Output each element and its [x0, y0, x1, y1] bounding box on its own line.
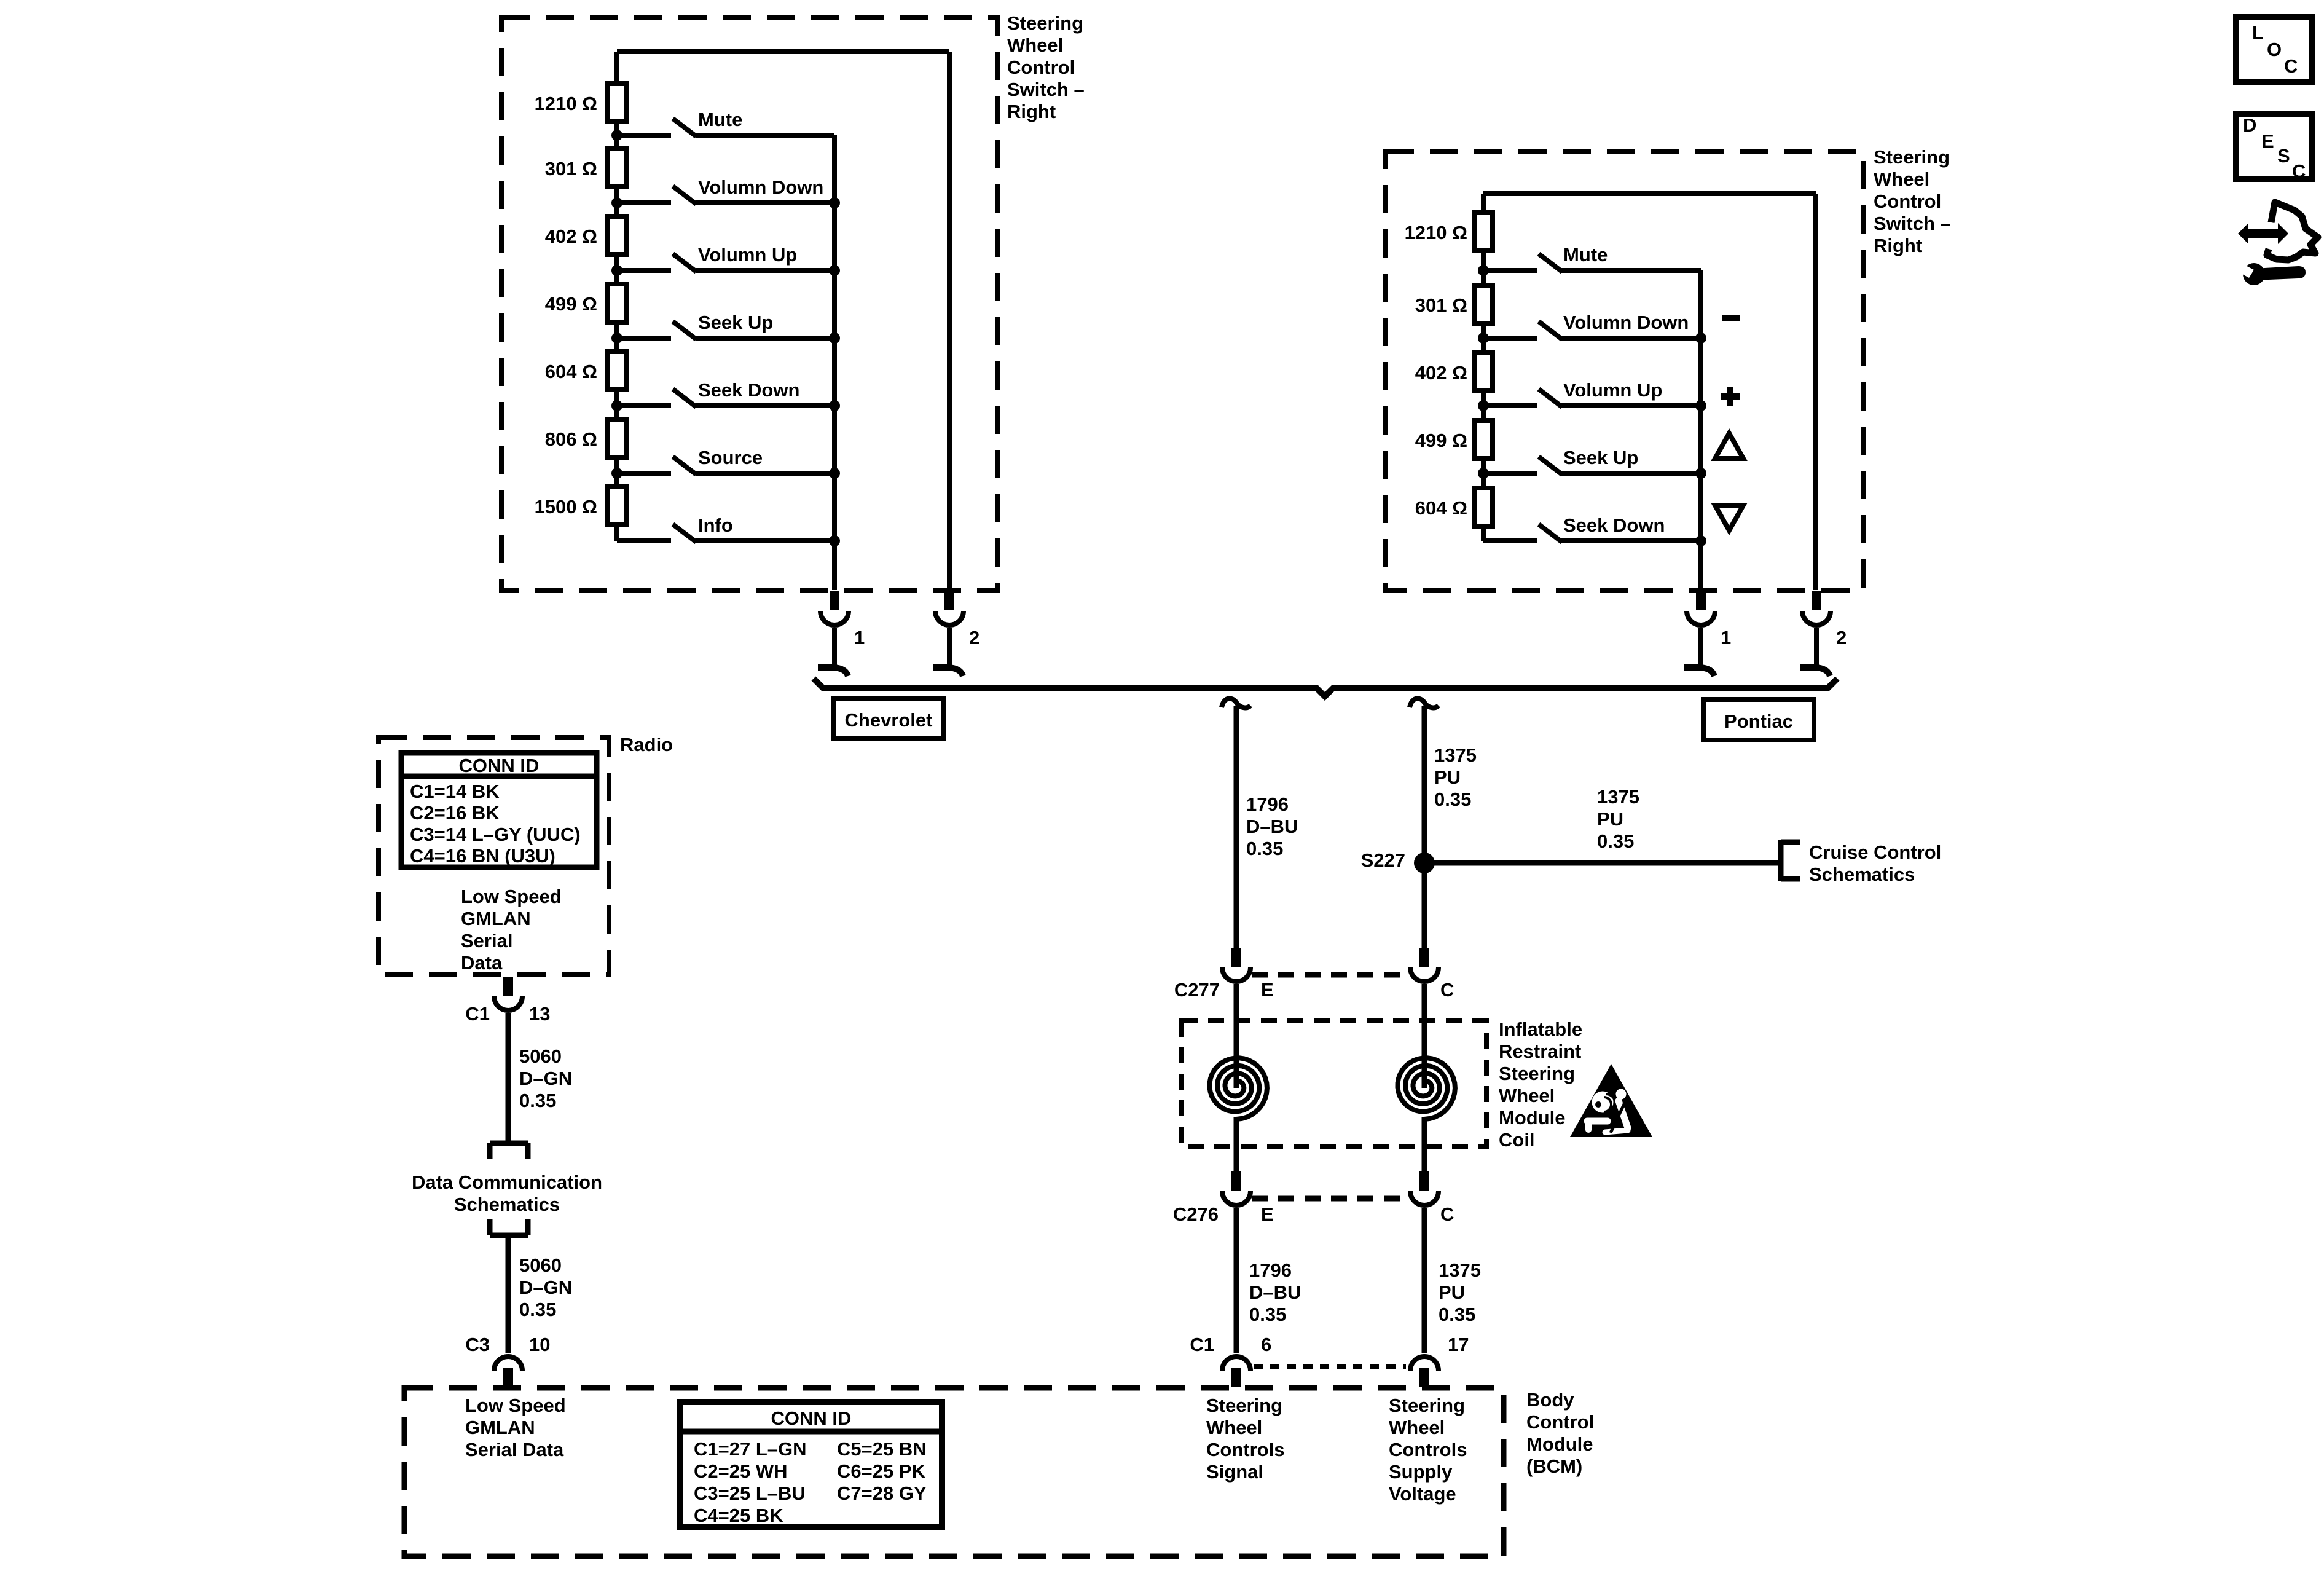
- svg-text:Seek Up: Seek Up: [698, 312, 773, 333]
- svg-text:O: O: [2267, 39, 2282, 60]
- svg-text:GMLAN: GMLAN: [465, 1417, 535, 1438]
- svg-text:6: 6: [1261, 1334, 1271, 1355]
- svg-text:10: 10: [529, 1334, 550, 1355]
- svg-text:402 Ω: 402 Ω: [545, 226, 597, 247]
- svg-text:C276: C276: [1173, 1203, 1219, 1225]
- svg-text:0.35: 0.35: [519, 1090, 556, 1111]
- svg-text:CONN ID: CONN ID: [771, 1408, 852, 1429]
- svg-text:C4=16 BN (U3U): C4=16 BN (U3U): [410, 845, 555, 867]
- svg-text:Voltage: Voltage: [1389, 1483, 1456, 1505]
- svg-text:Schematics: Schematics: [454, 1194, 560, 1215]
- svg-text:Seek Down: Seek Down: [1563, 514, 1665, 536]
- svg-text:Inflatable: Inflatable: [1499, 1018, 1582, 1040]
- svg-text:Radio: Radio: [620, 734, 673, 755]
- svg-text:Volumn Down: Volumn Down: [1563, 312, 1689, 333]
- svg-text:CONN ID: CONN ID: [459, 755, 540, 776]
- svg-text:C: C: [2284, 55, 2298, 77]
- svg-text:E: E: [2261, 130, 2274, 152]
- svg-text:(BCM): (BCM): [1526, 1455, 1582, 1477]
- svg-text:Control: Control: [1526, 1411, 1594, 1433]
- svg-text:Volumn Up: Volumn Up: [698, 244, 797, 266]
- svg-text:Switch –: Switch –: [1874, 213, 1951, 234]
- svg-text:Volumn Up: Volumn Up: [1563, 379, 1662, 401]
- svg-text:Control: Control: [1874, 191, 1941, 212]
- svg-text:Module: Module: [1499, 1107, 1566, 1128]
- svg-text:Info: Info: [698, 514, 733, 536]
- svg-text:1210 Ω: 1210 Ω: [535, 93, 597, 114]
- svg-text:2: 2: [969, 627, 979, 648]
- svg-text:Controls: Controls: [1206, 1439, 1284, 1460]
- svg-text:Supply: Supply: [1389, 1461, 1453, 1483]
- svg-text:301 Ω: 301 Ω: [1415, 294, 1467, 316]
- svg-text:Serial: Serial: [461, 930, 512, 951]
- svg-text:1: 1: [854, 627, 865, 648]
- svg-text:C277: C277: [1174, 979, 1220, 1001]
- svg-text:Steering: Steering: [1389, 1395, 1465, 1416]
- svg-text:Restraint: Restraint: [1499, 1041, 1581, 1062]
- svg-text:0.35: 0.35: [1439, 1304, 1475, 1325]
- svg-text:Serial Data: Serial Data: [465, 1439, 564, 1460]
- svg-text:Control: Control: [1007, 57, 1075, 78]
- svg-text:Steering: Steering: [1206, 1395, 1282, 1416]
- svg-text:Controls: Controls: [1389, 1439, 1467, 1460]
- svg-text:1375: 1375: [1597, 786, 1639, 808]
- svg-text:Data: Data: [461, 952, 503, 974]
- svg-text:1: 1: [1721, 627, 1731, 648]
- svg-text:1796: 1796: [1249, 1259, 1292, 1281]
- svg-text:402 Ω: 402 Ω: [1415, 362, 1467, 384]
- svg-text:Pontiac: Pontiac: [1724, 711, 1793, 732]
- svg-text:S227: S227: [1361, 849, 1405, 871]
- svg-text:C: C: [1440, 979, 1454, 1001]
- svg-text:GMLAN: GMLAN: [461, 908, 531, 929]
- svg-text:17: 17: [1448, 1334, 1469, 1355]
- svg-text:C4=25 BK: C4=25 BK: [694, 1505, 783, 1526]
- svg-text:301 Ω: 301 Ω: [545, 158, 597, 179]
- svg-text:C3=14 L–GY (UUC): C3=14 L–GY (UUC): [410, 824, 581, 845]
- svg-text:0.35: 0.35: [1246, 838, 1283, 859]
- svg-text:5060: 5060: [519, 1045, 562, 1067]
- svg-text:Signal: Signal: [1206, 1461, 1263, 1483]
- svg-text:Seek Down: Seek Down: [698, 379, 799, 401]
- svg-text:Body: Body: [1526, 1389, 1574, 1411]
- svg-text:Chevrolet: Chevrolet: [845, 709, 933, 731]
- svg-text:Data Communication: Data Communication: [412, 1171, 602, 1193]
- svg-text:0.35: 0.35: [1597, 830, 1634, 852]
- svg-text:Source: Source: [698, 447, 763, 468]
- svg-text:D–BU: D–BU: [1246, 816, 1298, 837]
- svg-text:C7=28 GY: C7=28 GY: [837, 1483, 927, 1504]
- svg-text:Right: Right: [1874, 235, 1922, 256]
- svg-text:5060: 5060: [519, 1254, 562, 1276]
- svg-text:C1: C1: [1190, 1334, 1214, 1355]
- svg-text:Schematics: Schematics: [1809, 864, 1915, 885]
- svg-text:Wheel: Wheel: [1206, 1417, 1262, 1438]
- svg-text:E: E: [1261, 979, 1274, 1001]
- svg-text:Seek Up: Seek Up: [1563, 447, 1638, 468]
- svg-text:Volumn Down: Volumn Down: [698, 176, 823, 198]
- svg-text:Steering: Steering: [1874, 146, 1950, 168]
- svg-text:2: 2: [1836, 627, 1847, 648]
- svg-text:D–BU: D–BU: [1249, 1282, 1301, 1303]
- svg-text:PU: PU: [1597, 808, 1623, 830]
- svg-text:D–GN: D–GN: [519, 1277, 572, 1298]
- svg-text:C5=25 BN: C5=25 BN: [837, 1438, 927, 1460]
- svg-text:604 Ω: 604 Ω: [1415, 497, 1467, 519]
- svg-text:Coil: Coil: [1499, 1129, 1535, 1151]
- svg-text:C: C: [1440, 1203, 1454, 1225]
- svg-text:1375: 1375: [1439, 1259, 1481, 1281]
- svg-text:Wheel: Wheel: [1499, 1085, 1555, 1106]
- svg-text:Cruise Control: Cruise Control: [1809, 841, 1941, 863]
- svg-text:C3: C3: [465, 1334, 490, 1355]
- svg-text:1796: 1796: [1246, 793, 1289, 815]
- svg-text:Steering: Steering: [1499, 1063, 1575, 1084]
- svg-text:C1=14 BK: C1=14 BK: [410, 781, 500, 802]
- svg-text:0.35: 0.35: [1434, 789, 1471, 810]
- svg-text:D–GN: D–GN: [519, 1068, 572, 1089]
- svg-text:1500 Ω: 1500 Ω: [535, 496, 597, 518]
- svg-text:Low Speed: Low Speed: [465, 1395, 566, 1416]
- svg-text:Wheel: Wheel: [1007, 34, 1063, 56]
- svg-text:L: L: [2252, 22, 2264, 44]
- svg-text:C3=25 L–BU: C3=25 L–BU: [694, 1483, 806, 1504]
- svg-text:C1: C1: [465, 1003, 490, 1025]
- svg-text:499 Ω: 499 Ω: [545, 293, 597, 315]
- svg-text:Low Speed: Low Speed: [461, 886, 562, 907]
- svg-text:Wheel: Wheel: [1389, 1417, 1445, 1438]
- svg-text:0.35: 0.35: [519, 1299, 556, 1320]
- svg-text:Steering: Steering: [1007, 12, 1083, 34]
- svg-text:E: E: [1261, 1203, 1274, 1225]
- svg-text:Mute: Mute: [1563, 244, 1608, 266]
- svg-text:1375: 1375: [1434, 744, 1477, 766]
- svg-text:C1=27 L–GN: C1=27 L–GN: [694, 1438, 807, 1460]
- svg-text:499 Ω: 499 Ω: [1415, 430, 1467, 451]
- svg-text:Switch –: Switch –: [1007, 79, 1085, 100]
- svg-text:S: S: [2277, 145, 2290, 167]
- svg-text:604 Ω: 604 Ω: [545, 361, 597, 382]
- svg-text:PU: PU: [1434, 766, 1461, 788]
- svg-text:C6=25 PK: C6=25 PK: [837, 1460, 926, 1482]
- svg-text:0.35: 0.35: [1249, 1304, 1286, 1325]
- svg-text:PU: PU: [1439, 1282, 1465, 1303]
- svg-text:Wheel: Wheel: [1874, 168, 1929, 190]
- svg-text:D: D: [2243, 114, 2256, 136]
- svg-text:C: C: [2292, 160, 2306, 182]
- svg-text:Module: Module: [1526, 1433, 1593, 1455]
- svg-text:806 Ω: 806 Ω: [545, 428, 597, 450]
- svg-text:C2=16 BK: C2=16 BK: [410, 802, 500, 824]
- svg-text:Mute: Mute: [698, 109, 742, 130]
- svg-text:Right: Right: [1007, 101, 1056, 122]
- svg-text:1210 Ω: 1210 Ω: [1405, 222, 1467, 243]
- svg-text:13: 13: [529, 1003, 550, 1025]
- svg-text:C2=25 WH: C2=25 WH: [694, 1460, 787, 1482]
